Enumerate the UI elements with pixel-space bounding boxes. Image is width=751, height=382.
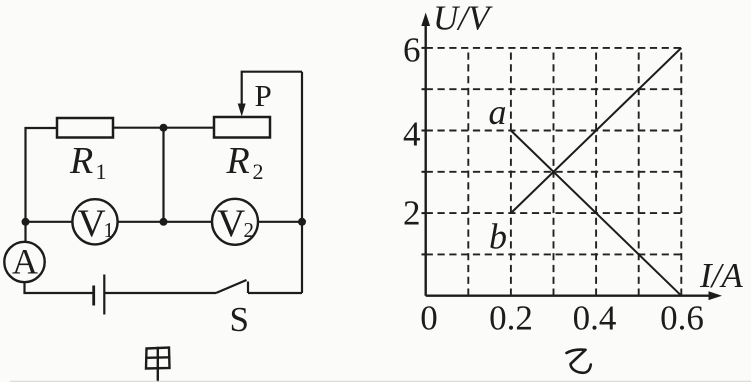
- slider P wire and arrow: [242, 72, 302, 106]
- line b (ascending): [511, 48, 681, 213]
- svg-text:2: 2: [253, 159, 264, 184]
- svg-text:U/V: U/V: [433, 0, 493, 38]
- graph x-axis arrowhead: [709, 291, 723, 300]
- svg-text:I/A: I/A: [699, 256, 743, 295]
- svg-text:a: a: [489, 92, 507, 132]
- rheostat R2: [214, 117, 270, 138]
- svg-text:2: 2: [244, 218, 255, 242]
- label P: [255, 78, 272, 113]
- line a (descending): [511, 131, 681, 296]
- bottom scan artifact line: [10, 380, 751, 382]
- label R2: [226, 140, 264, 184]
- svg-text:P: P: [255, 78, 272, 113]
- svg-text:0.2: 0.2: [489, 299, 533, 338]
- svg-text:V: V: [78, 202, 106, 245]
- grid horizontal dashed lines: [426, 48, 682, 255]
- wire left vertical (top corner to ammeter): [26, 128, 58, 242]
- graph x-axis: [426, 295, 710, 297]
- label R1: [69, 140, 107, 184]
- svg-text:6: 6: [403, 31, 421, 70]
- svg-text:1: 1: [104, 218, 115, 242]
- battery long plate: [103, 275, 105, 315]
- grid vertical dashed lines: [468, 48, 681, 296]
- wire left vertical below ammeter to bottom: [25, 282, 94, 293]
- svg-text:4: 4: [403, 115, 421, 154]
- wire switch to right vertical: [248, 292, 302, 294]
- svg-text:R: R: [69, 140, 93, 182]
- svg-text:V: V: [217, 202, 245, 245]
- wire voltmeter row: [26, 221, 303, 223]
- graph y-axis arrowhead: [421, 13, 430, 27]
- switch blade: [216, 280, 247, 293]
- svg-text:1: 1: [96, 159, 107, 184]
- label yi (graph title): [567, 349, 591, 372]
- label jia (circuit title): [146, 348, 170, 382]
- svg-text:A: A: [12, 242, 38, 282]
- voltmeter V2: [212, 199, 258, 245]
- svg-text:S: S: [230, 300, 249, 339]
- y-axis ticks: [422, 48, 426, 255]
- svg-text:0: 0: [420, 299, 438, 338]
- graph y-axis: [425, 24, 427, 296]
- wire R1 to R2: [113, 127, 214, 129]
- switch right contact tick: [247, 282, 249, 294]
- svg-text:0.6: 0.6: [660, 299, 704, 338]
- voltmeter V1: [72, 199, 117, 245]
- battery short plate: [92, 286, 95, 306]
- node dot middle V-row: [160, 218, 168, 226]
- wire middle vertical: [162, 128, 164, 222]
- wire battery to switch: [104, 292, 216, 294]
- slider arrowhead: [238, 104, 246, 117]
- ammeter A: [4, 242, 44, 283]
- svg-text:b: b: [489, 217, 507, 257]
- node dot right V-row: [298, 218, 306, 226]
- label S: [230, 300, 249, 339]
- svg-text:R: R: [226, 140, 250, 182]
- resistor R1: [57, 118, 113, 138]
- wire right vertical: [301, 72, 303, 293]
- svg-text:2: 2: [403, 194, 421, 233]
- node dot junction R1-R2 wire: [160, 124, 168, 132]
- svg-text:0.4: 0.4: [573, 299, 617, 338]
- node dot left V-row: [22, 218, 30, 226]
